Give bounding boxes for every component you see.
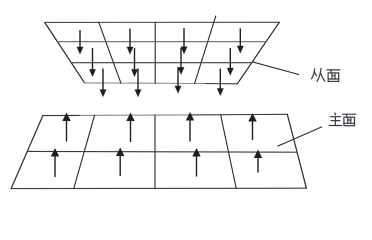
- wire interior vertical line V2 of bottom panel: [154, 115, 156, 188]
- wire interior horizontal line h1 of top panel: [57, 41, 265, 43]
- arrow T row1 col2: [127, 29, 134, 55]
- wire right edge of top panel: [237, 22, 279, 84]
- arrow B row2 col1: [51, 148, 59, 177]
- glyph 面: [343, 114, 356, 126]
- upward arrows in bottom panel: [51, 112, 262, 177]
- leader line to 从面 label: [252, 62, 299, 75]
- label 主面 (hand drawn glyphs): [329, 113, 355, 126]
- wire top edge of top panel: [45, 21, 279, 23]
- arrow T row2 col2: [131, 48, 138, 77]
- arrow T row3 col3: [175, 68, 182, 94]
- arrow T row1 col3: [181, 28, 188, 54]
- arrow B row1 col2: [126, 113, 134, 143]
- wire interior vertical line V2 of top panel: [154, 22, 156, 83]
- wire left edge of top panel: [45, 23, 85, 83]
- top panel (slave surface 从面): [45, 16, 279, 84]
- wire interior slanted line V3 of bottom panel: [221, 115, 237, 189]
- arrow B row1 col3: [186, 112, 194, 142]
- arrow B row1 col1: [62, 113, 70, 142]
- arrow B row2 col2: [116, 148, 124, 177]
- wire top edge of bottom panel (light middle): [80, 114, 190, 117]
- wire right edge of bottom panel: [287, 114, 306, 188]
- wire bottom edge right segment of top panel: [205, 83, 237, 85]
- arrow T row2 col3: [178, 48, 185, 75]
- wire interior slanted line V1 of bottom panel: [74, 115, 95, 188]
- wire interior slanted line V3 of top panel (overshoots top edge): [195, 16, 216, 83]
- arrow T row1 col4: [237, 28, 244, 53]
- arrow T row3 col4: [217, 69, 224, 97]
- arrow B row1 col4: [248, 113, 256, 140]
- wire bottom edge of top panel (light): [85, 82, 205, 85]
- arrow B row2 col4: [254, 150, 262, 173]
- arrow T row2 col1: [89, 48, 96, 77]
- glyph 面: [327, 70, 340, 82]
- wire bottom edge of bottom panel: [11, 187, 306, 189]
- leader line to 主面 label: [278, 127, 323, 147]
- arrow T row2 col4: [227, 48, 234, 76]
- arrow T row3 col1: [100, 69, 107, 98]
- downward arrows in top panel: [77, 28, 244, 97]
- wire top edge of bottom panel (left dark segment): [43, 114, 80, 116]
- arrow B row2 col3: [192, 148, 200, 177]
- glyph 主: [329, 113, 341, 126]
- arrow T row1 col1: [77, 30, 84, 55]
- wire top edge of bottom panel (right dark segment): [190, 113, 287, 116]
- label 从面 (hand drawn glyphs): [312, 68, 340, 81]
- wire left edge of bottom panel: [11, 116, 43, 189]
- arrow T row3 col2: [135, 69, 142, 98]
- bottom panel (master surface 主面): [11, 114, 306, 188]
- wire interior slanted line V1 of top panel: [99, 22, 121, 83]
- wire interior horizontal line H of bottom panel: [28, 150, 297, 153]
- glyph 从: [312, 68, 325, 81]
- wire interior horizontal line h2 of top panel: [71, 62, 252, 64]
